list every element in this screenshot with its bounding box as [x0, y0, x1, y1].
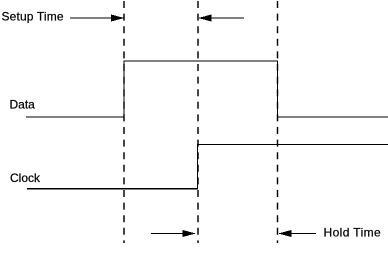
wire Data waveform (low, rise at setup line, high, fall at hold line, low)	[26, 61, 388, 117]
node clock edge reference line (dashed, middle)	[197, 1, 199, 243]
wire hold-time arrow (pointing left to hold line)	[278, 230, 316, 237]
wire setup-time arrow (pointing left to clock-edge line)	[198, 14, 244, 21]
svg-text:Data: Data	[10, 97, 36, 111]
wire Clock waveform (low, rise at clock-edge line, high)	[27, 145, 388, 189]
node hold reference line (dashed, at data fall)	[277, 1, 279, 243]
svg-text:Hold Time: Hold Time	[324, 226, 382, 240]
svg-text:Setup Time: Setup Time	[2, 10, 64, 24]
wire setup-time arrow (pointing right to setup line)	[70, 14, 124, 21]
svg-text:Clock: Clock	[10, 171, 41, 185]
wire hold-time arrow (pointing right to clock-edge line)	[151, 230, 196, 237]
node setup reference line (dashed, at data transition)	[123, 1, 125, 243]
